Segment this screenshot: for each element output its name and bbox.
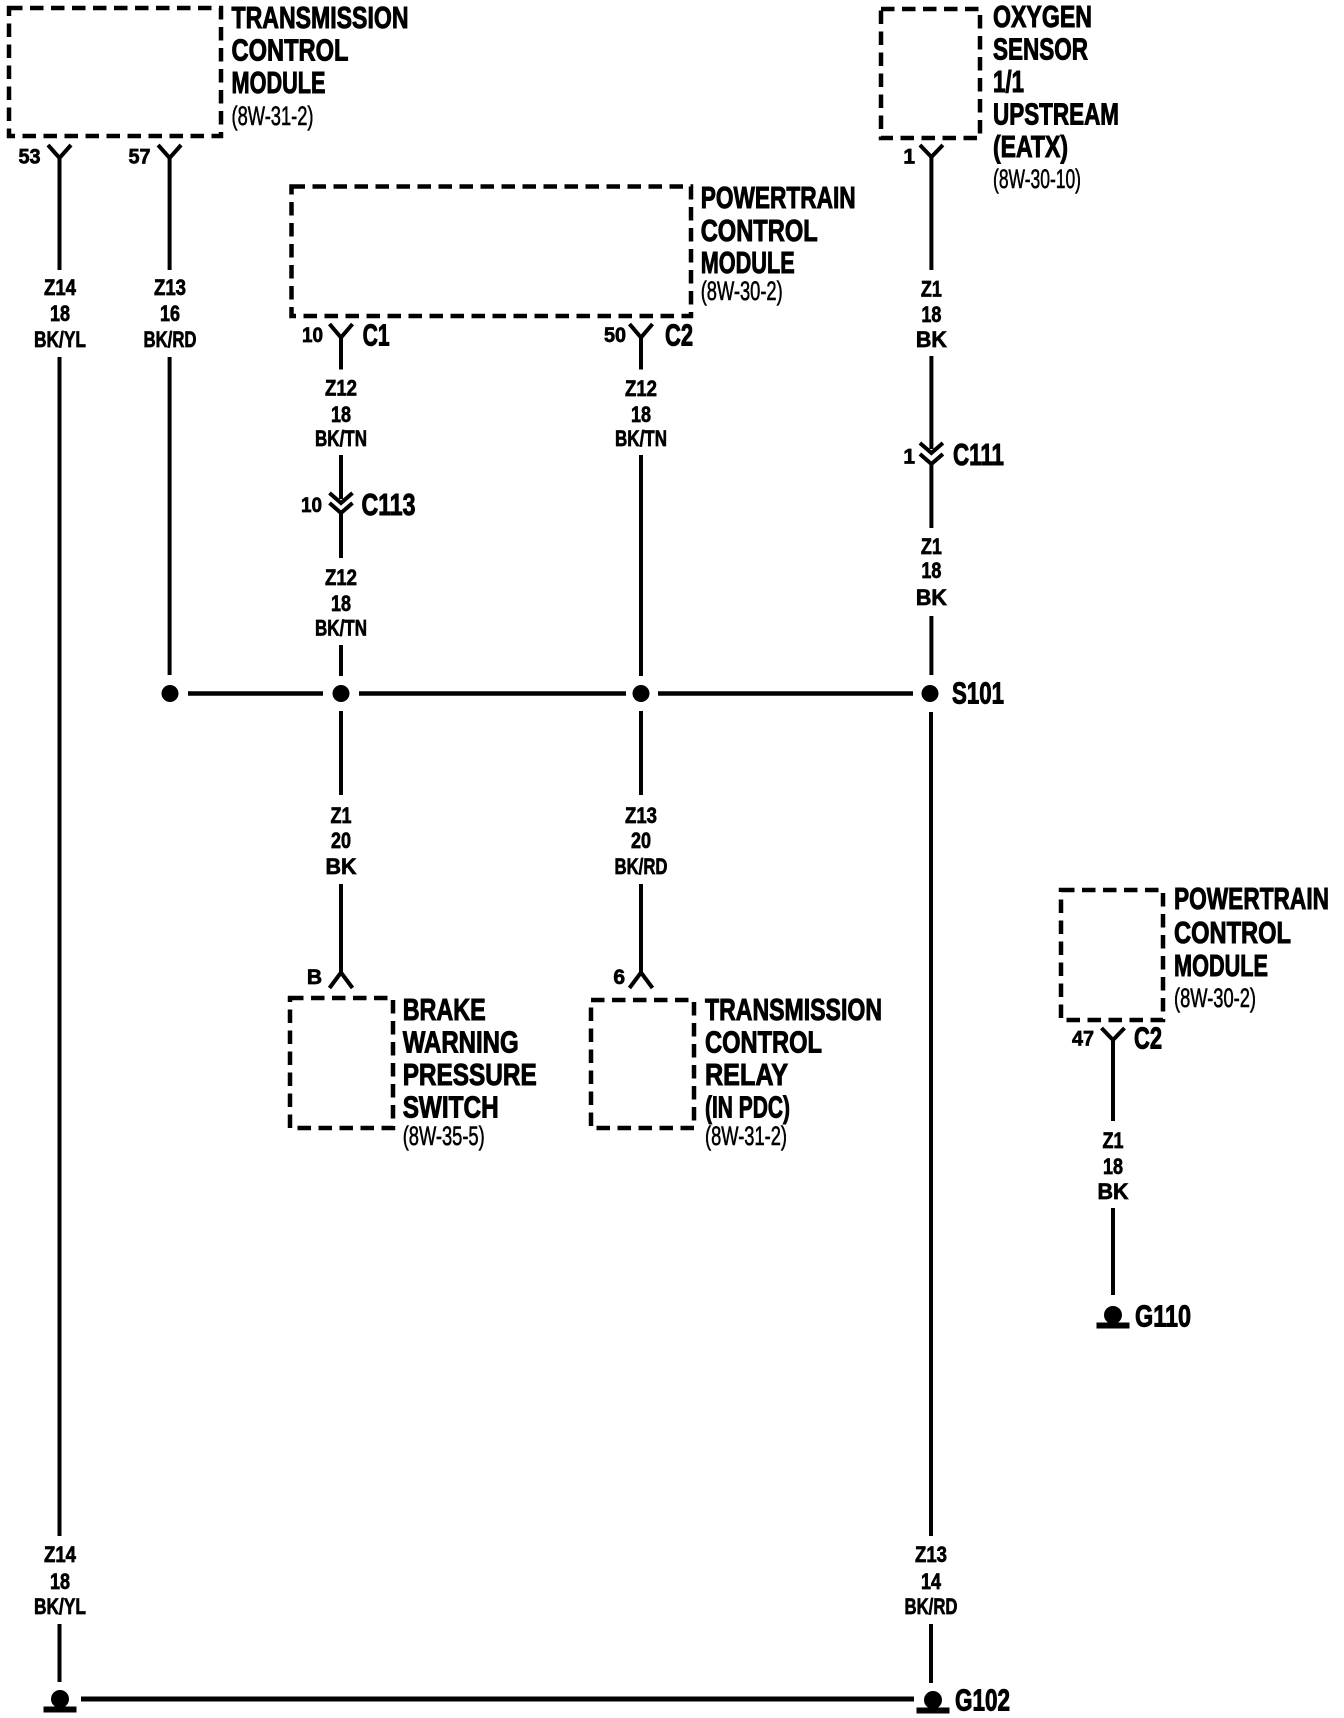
svg-text:POWERTRAIN: POWERTRAIN <box>1174 881 1329 916</box>
svg-text:WARNING: WARNING <box>403 1025 519 1060</box>
svg-text:Z1: Z1 <box>1103 1128 1124 1153</box>
transmission control relay label <box>705 992 882 1151</box>
svg-text:(8W-31-2): (8W-31-2) <box>705 1121 787 1151</box>
wire to ground G102 <box>929 1624 933 1683</box>
wire label Z13 14 BK/RD <box>905 1542 958 1619</box>
svg-text:Z13: Z13 <box>154 275 186 300</box>
svg-text:(8W-31-2): (8W-31-2) <box>232 101 314 131</box>
svg-text:C1: C1 <box>363 318 390 353</box>
svg-text:Z1: Z1 <box>921 277 942 302</box>
in-line connector C113 <box>301 487 416 522</box>
svg-text:16: 16 <box>160 301 180 326</box>
wire Z12 down to splice S101 <box>339 645 343 676</box>
svg-text:BK/TN: BK/TN <box>315 615 367 640</box>
svg-text:18: 18 <box>921 302 941 327</box>
junction dot (Z13 16 BK/RD wire) <box>162 685 179 702</box>
oxygen sensor 1/1 upstream box <box>881 9 980 138</box>
powertrain control module box (right) <box>1061 890 1163 1020</box>
pin 6 connector at relay <box>613 966 652 989</box>
wire label Z14 18 BK/YL (lower) <box>34 1542 86 1619</box>
svg-text:RELAY: RELAY <box>705 1057 788 1092</box>
powertrain control module box (center) <box>292 187 692 317</box>
wire Z12 down to splice S101 (C2 branch) <box>639 455 643 676</box>
svg-text:53: 53 <box>19 146 41 169</box>
svg-text:BK/RD: BK/RD <box>615 854 668 879</box>
svg-text:TRANSMISSION: TRANSMISSION <box>705 992 882 1027</box>
svg-text:Z12: Z12 <box>625 376 657 401</box>
svg-text:Z1: Z1 <box>921 534 942 559</box>
bottom ground bus wire <box>81 1697 914 1702</box>
svg-text:10: 10 <box>301 494 322 517</box>
in-line connector C111 <box>903 437 1004 472</box>
svg-text:BK/YL: BK/YL <box>34 327 86 352</box>
wire label Z1 20 BK <box>326 803 357 879</box>
svg-text:C2: C2 <box>665 318 693 353</box>
svg-text:MODULE: MODULE <box>1174 948 1268 983</box>
wire Z14 bottom segment to ground <box>58 1624 62 1682</box>
splice bus segment 3 <box>658 691 913 696</box>
transmission control module label <box>232 0 409 131</box>
svg-text:CONTROL: CONTROL <box>232 33 349 68</box>
svg-text:CONTROL: CONTROL <box>1174 915 1291 950</box>
transmission control module box <box>9 8 221 136</box>
wire Z13 20 BK/RD from splice <box>639 711 643 795</box>
svg-text:20: 20 <box>331 828 351 853</box>
svg-text:(8W-35-5): (8W-35-5) <box>403 1121 485 1151</box>
wire down to pin 6 <box>639 884 643 973</box>
ground G102 <box>917 1683 1011 1718</box>
svg-text:18: 18 <box>331 591 351 616</box>
svg-text:1/1: 1/1 <box>993 64 1024 99</box>
powertrain control module label (right) <box>1174 881 1329 1013</box>
pin 53 connector at TCM <box>19 145 72 169</box>
wire Z12 below C113 <box>339 513 343 558</box>
svg-text:1: 1 <box>903 446 915 469</box>
svg-text:18: 18 <box>921 558 941 583</box>
wire down to pin B <box>339 884 343 973</box>
svg-text:Z14: Z14 <box>44 1542 77 1567</box>
pin 10 connector C1 at PCM <box>302 318 390 353</box>
svg-text:(8W-30-2): (8W-30-2) <box>1174 983 1256 1013</box>
wire down to ground G110 <box>1111 1208 1115 1295</box>
svg-text:14: 14 <box>921 1569 942 1594</box>
svg-text:6: 6 <box>613 966 625 989</box>
powertrain control module label (center) <box>701 180 856 306</box>
svg-text:18: 18 <box>631 402 651 427</box>
wire label Z13 20 BK/RD <box>615 803 668 879</box>
svg-text:S101: S101 <box>952 676 1004 711</box>
svg-text:57: 57 <box>129 146 151 169</box>
svg-text:SENSOR: SENSOR <box>993 32 1088 67</box>
transmission control relay box <box>591 1000 694 1128</box>
svg-text:G110: G110 <box>1135 1299 1191 1334</box>
wire Z1 from oxygen sensor pin 1 <box>929 157 933 270</box>
wire label Z12 18 BK/TN (C2 branch) <box>615 376 667 451</box>
brake warning pressure switch label <box>403 992 537 1151</box>
wire Z12 from C2 pin 50 <box>639 338 643 370</box>
svg-text:POWERTRAIN: POWERTRAIN <box>701 180 856 215</box>
svg-text:C2: C2 <box>1134 1021 1162 1056</box>
wire Z1 20 BK from splice <box>339 711 343 795</box>
splice bus segment 1 <box>188 691 323 696</box>
svg-text:1: 1 <box>903 146 915 169</box>
svg-text:BK/RD: BK/RD <box>905 1594 958 1619</box>
svg-text:Z1: Z1 <box>331 803 352 828</box>
wire label Z13 16 BK/RD <box>144 275 197 352</box>
svg-text:50: 50 <box>604 324 626 347</box>
svg-text:G102: G102 <box>955 1683 1010 1718</box>
wire label Z1 18 BK (below C111) <box>916 534 947 610</box>
splice bus segment 2 <box>359 691 626 696</box>
svg-text:Z14: Z14 <box>44 275 77 300</box>
svg-text:OXYGEN: OXYGEN <box>993 0 1092 34</box>
wire Z13 14 BK/RD from splice S101 down <box>929 712 933 1536</box>
wire label Z14 18 BK/YL (upper) <box>34 275 86 352</box>
svg-text:18: 18 <box>50 1569 70 1594</box>
ground G110 <box>1097 1299 1192 1334</box>
pin 57 connector at TCM <box>129 145 182 169</box>
svg-text:MODULE: MODULE <box>232 65 326 100</box>
svg-text:BK: BK <box>326 854 357 879</box>
pin 1 connector at oxygen sensor <box>903 145 943 169</box>
svg-text:B: B <box>307 966 322 989</box>
svg-text:Z13: Z13 <box>915 1542 947 1567</box>
svg-text:UPSTREAM: UPSTREAM <box>993 97 1119 132</box>
wire Z13 down to splice S101 <box>168 357 172 675</box>
wire Z1 down to splice S101 <box>929 616 933 675</box>
wire Z12 from C1 pin 10 <box>339 338 343 370</box>
svg-text:C111: C111 <box>953 437 1004 472</box>
svg-text:BK/RD: BK/RD <box>144 327 197 352</box>
svg-text:20: 20 <box>631 828 651 853</box>
pin B connector at brake switch <box>307 966 353 989</box>
svg-text:SWITCH: SWITCH <box>403 1090 499 1125</box>
wire Z14 from pin 53, upper segment <box>58 158 62 270</box>
svg-text:18: 18 <box>50 301 70 326</box>
wire Z13 from pin 57, upper segment <box>168 158 172 270</box>
oxygen sensor label <box>993 0 1119 194</box>
wire Z1 below C111 <box>929 464 933 528</box>
svg-text:BK: BK <box>916 327 947 352</box>
svg-text:C113: C113 <box>362 487 416 522</box>
wire into connector C111 <box>929 356 933 449</box>
ground symbol left (Z14 wire) <box>51 1690 69 1708</box>
svg-text:(8W-30-10): (8W-30-10) <box>993 164 1081 194</box>
wire label Z12 18 BK/TN (above C113) <box>315 376 367 451</box>
junction dot (C2 branch) <box>633 685 650 702</box>
svg-text:47: 47 <box>1072 1028 1094 1051</box>
svg-text:(8W-30-2): (8W-30-2) <box>701 276 783 306</box>
svg-text:BRAKE: BRAKE <box>403 992 486 1027</box>
svg-text:MODULE: MODULE <box>701 245 795 280</box>
wire label Z1 18 BK (right PCM) <box>1098 1128 1129 1204</box>
wire label Z1 18 BK (above C111) <box>916 277 947 352</box>
svg-text:BK: BK <box>916 585 947 610</box>
wire label Z12 18 BK/TN (below C113) <box>315 565 367 641</box>
svg-text:PRESSURE: PRESSURE <box>403 1057 537 1092</box>
svg-text:CONTROL: CONTROL <box>701 213 818 248</box>
svg-text:18: 18 <box>331 402 351 427</box>
svg-text:BK/TN: BK/TN <box>615 426 667 451</box>
svg-text:(EATX): (EATX) <box>993 129 1068 164</box>
svg-text:BK: BK <box>1098 1179 1129 1204</box>
wire Z14 long segment down page <box>58 357 62 1536</box>
pin 50 connector C2 at PCM <box>604 318 693 353</box>
brake warning pressure switch box <box>290 998 393 1128</box>
svg-text:(IN PDC): (IN PDC) <box>705 1090 790 1125</box>
svg-text:BK/TN: BK/TN <box>315 426 367 451</box>
svg-text:Z13: Z13 <box>625 803 657 828</box>
wire Z1 from pin 47 <box>1111 1040 1115 1121</box>
svg-text:BK/YL: BK/YL <box>34 1594 86 1619</box>
pin 47 connector C2 at right PCM <box>1072 1021 1162 1056</box>
splice S101 dot and label <box>922 676 1005 711</box>
junction dot (C1 branch) <box>333 685 350 702</box>
wire into connector C113 <box>339 455 343 499</box>
svg-text:Z12: Z12 <box>325 376 357 401</box>
svg-text:18: 18 <box>1103 1154 1123 1179</box>
svg-text:CONTROL: CONTROL <box>705 1025 822 1060</box>
svg-text:10: 10 <box>302 324 323 347</box>
svg-text:Z12: Z12 <box>325 565 357 590</box>
svg-text:TRANSMISSION: TRANSMISSION <box>232 0 409 35</box>
